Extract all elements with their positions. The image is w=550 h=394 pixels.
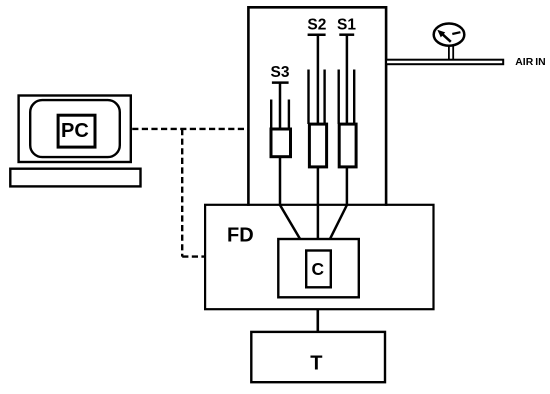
test chamber enclosure bbox=[248, 7, 386, 206]
collector housing bbox=[278, 239, 359, 297]
sensor S2 body box bbox=[309, 124, 326, 167]
sensor S3 tube left wall bbox=[270, 100, 272, 130]
T unit box bbox=[251, 332, 385, 382]
wire S1 to collector bbox=[330, 167, 347, 239]
dashed link: horizontal into FD bbox=[182, 255, 205, 257]
sensor S3 tube right wall bbox=[288, 100, 290, 130]
FD unit box bbox=[205, 205, 433, 309]
svg-text:AIR IN: AIR IN bbox=[515, 57, 545, 68]
svg-text:S2: S2 bbox=[307, 16, 326, 33]
pressure gauge dial mark bbox=[452, 32, 460, 34]
pressure gauge needle bbox=[442, 34, 451, 42]
wire S2 to collector bbox=[317, 167, 320, 239]
sensor S1 body box bbox=[339, 124, 356, 167]
C cell box bbox=[306, 251, 331, 288]
sensor S2 stem bbox=[317, 35, 320, 124]
svg-text:S3: S3 bbox=[271, 64, 290, 81]
sensor S2 tube left wall bbox=[307, 70, 309, 125]
pressure gauge dial bbox=[434, 23, 465, 45]
sensor S2 tube right wall bbox=[323, 70, 325, 125]
svg-text:PC: PC bbox=[61, 120, 89, 142]
svg-text:T: T bbox=[310, 353, 322, 375]
sensor S3 body box bbox=[271, 129, 291, 157]
dashed link: vertical drop bbox=[181, 129, 183, 257]
computer monitor outer frame bbox=[19, 96, 131, 163]
svg-text:S1: S1 bbox=[337, 16, 356, 33]
wire FD to T bbox=[316, 309, 319, 332]
sensor S3 top tick bbox=[272, 81, 289, 84]
sensor S2 top tick bbox=[308, 33, 326, 36]
computer monitor screen bezel bbox=[30, 100, 120, 157]
wire S3 to collector bbox=[280, 157, 300, 239]
dashed link: PC to chamber, horizontal bbox=[132, 128, 248, 130]
PC label box bbox=[58, 115, 95, 147]
pressure gauge stem left bbox=[448, 46, 450, 60]
svg-text:C: C bbox=[312, 259, 325, 279]
sensor S1 tube left wall bbox=[338, 70, 340, 125]
pressure gauge stem right bbox=[452, 46, 454, 60]
sensor S1 stem bbox=[346, 35, 349, 124]
sensor S3 stem bbox=[279, 83, 282, 129]
sensor S1 top tick bbox=[339, 33, 354, 36]
computer base bbox=[10, 169, 140, 187]
air inlet pipe bbox=[386, 60, 503, 64]
sensor S1 tube right wall bbox=[353, 70, 355, 125]
svg-text:FD: FD bbox=[227, 225, 254, 247]
pressure gauge needle arrowhead bbox=[437, 30, 445, 38]
